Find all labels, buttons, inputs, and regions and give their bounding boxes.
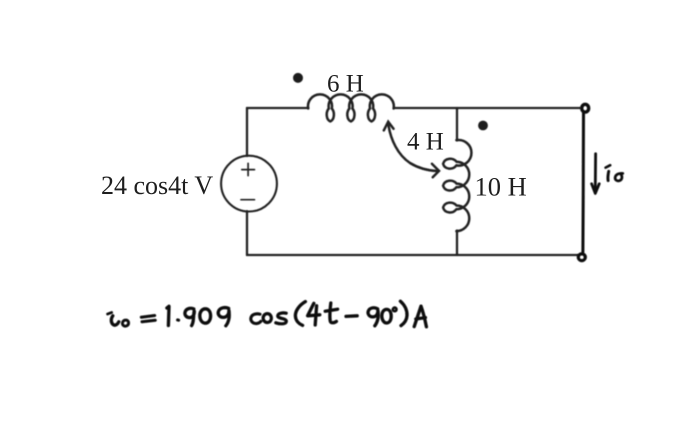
mutual coupling arrow lower head [432, 164, 439, 177]
wire: bottom rail [247, 254, 578, 256]
terminal: top-right open circle [582, 104, 589, 112]
hand glyph: A [414, 306, 426, 327]
wire: top rail right segment from 6H to right terminal [394, 107, 580, 109]
hand glyph: 0 (first) [200, 309, 211, 323]
hand glyph: 9 (second) [218, 308, 229, 326]
svg-text:10 H: 10 H [475, 172, 527, 202]
inductor L1 6 H coil [308, 94, 394, 121]
wire: right vertical (hand-drawn) [581, 113, 585, 252]
hand glyph: decimal point [178, 318, 179, 321]
voltage source plus sign [242, 163, 255, 175]
mutual coupling arrow upper head [384, 122, 394, 131]
hand glyph: c [251, 314, 261, 324]
dot marking L1 polarity [293, 73, 303, 83]
hand glyph: open paren [295, 302, 305, 326]
hand glyph: minus [346, 314, 357, 318]
hand glyph: 9 (first) [185, 308, 194, 325]
hand glyph: 0 (second) [382, 309, 391, 323]
svg-text:4 H: 4 H [407, 129, 444, 156]
inductor L2 10 H coil [443, 140, 471, 231]
handwritten answer equation [108, 301, 427, 327]
terminal: bottom-right open circle [578, 254, 585, 261]
voltage source minus sign [241, 199, 255, 201]
hand glyph: 1 [167, 306, 169, 325]
wire: top rail left segment to 6H [247, 107, 308, 109]
svg-text:24 cos4t V: 24 cos4t V [101, 171, 213, 200]
wire: 10H bottom to bottom rail [456, 231, 458, 256]
hand glyph: equals [141, 316, 155, 322]
hand glyph: i dot [108, 313, 112, 315]
hand glyph: s [276, 313, 287, 324]
wire: junction at node down to 10H top [456, 108, 458, 141]
hand glyph: degree [393, 308, 397, 312]
mutual coupling arrow M shaft [388, 124, 437, 172]
hand glyph: i body [111, 316, 119, 325]
dot marking L2 polarity [478, 121, 488, 131]
svg-text:6 H: 6 H [327, 71, 364, 98]
wire: source bottom to bottom rail [246, 211, 248, 255]
hand glyph: close paren [400, 301, 407, 325]
voltage source VS circle [221, 156, 277, 212]
arrow: output current io head [592, 184, 600, 194]
label: io handwritten next to arrow [606, 165, 623, 181]
hand glyph: t [325, 303, 337, 323]
wire: left vertical from top rail down to source top [246, 108, 248, 156]
hand glyph: o [263, 314, 271, 323]
hand glyph: 9 (third) [368, 308, 378, 326]
hand glyph: 4 [308, 303, 320, 325]
arrow: output current io shaft [594, 154, 597, 189]
hand glyph: subscript o [122, 320, 128, 326]
